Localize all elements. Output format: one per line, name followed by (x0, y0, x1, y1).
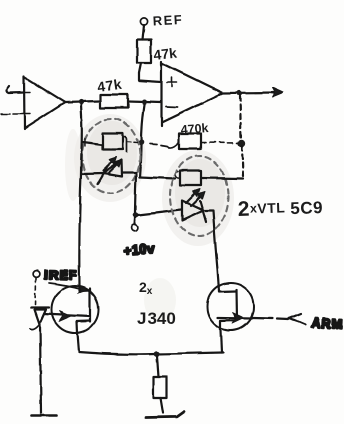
smudge below J340 label (144, 278, 176, 322)
node C junction (output) (237, 90, 242, 95)
photocell P1 box (103, 134, 124, 150)
ground left (31, 414, 56, 417)
label 2x VTL5C9 (237, 195, 323, 221)
LED D3 (vactrol 2) (182, 201, 206, 223)
wire LED D3 cathode right and down to Q2 drain (206, 211, 219, 284)
node D junction (238, 139, 245, 146)
node F junction (+10V) (133, 212, 139, 218)
dashed wire IREF terminal down to diode D1 (35, 278, 38, 305)
IREF terminal (33, 271, 40, 278)
vactrol VTL1 dashed envelope (82, 119, 140, 193)
ARM arrowhead (289, 314, 306, 325)
diode D1 (reference) (30, 308, 50, 330)
wire node B down (feedback bus) (140, 105, 145, 178)
label ARM (311, 315, 344, 332)
vactrol VTL2 dashed envelope (170, 156, 228, 236)
wire D1 to ground (40, 324, 41, 413)
light arrows vactrol 2 (186, 189, 205, 206)
resistor R4 (154, 377, 167, 398)
wire feedback bus elbow to photocell 2 (140, 172, 180, 179)
wire Q2 gate to ARM arrow (253, 318, 288, 320)
wire input stub 1 with hook (7, 86, 24, 93)
resistor R1 47K vertical (137, 40, 151, 63)
svg-text:REF: REF (152, 12, 183, 29)
wire node A to R2 (81, 100, 100, 103)
wire node A down to Q1 drain (79, 105, 81, 288)
wire R2 to op-amp minus input (128, 102, 161, 103)
label REF (152, 12, 183, 29)
photocell P2 box (180, 171, 201, 186)
svg-text:+10v: +10v (123, 241, 156, 258)
wire P1 right lead (123, 137, 138, 152)
LED D2 (vactrol 1) (98, 160, 123, 184)
wire REF to R1 (143, 25, 145, 40)
label IREF (44, 267, 78, 283)
JFET Q1 (44, 286, 99, 333)
label 47K (R1) (153, 45, 178, 63)
resistor R3 470K (179, 134, 201, 150)
wire LED D2 anode right (123, 171, 136, 173)
source rail (79, 352, 223, 354)
JFET Q2 (207, 283, 254, 330)
wire LED1-anode down to +10V node (135, 174, 136, 213)
svg-text:ARM: ARM (311, 315, 344, 332)
wire Q1 source to rail (78, 333, 80, 352)
svg-text:47k: 47k (96, 76, 123, 95)
svg-text:47k: 47k (153, 45, 178, 63)
smudge shading around vactrol 1 (74, 114, 146, 202)
node E junction (on feedback bus) (138, 139, 144, 145)
output arrowhead (272, 88, 283, 98)
wire R1 to op-amp plus input (139, 63, 161, 82)
+10V terminal (131, 218, 138, 231)
wire U1 output to node A (65, 101, 81, 104)
resistor R2 47K (100, 95, 128, 109)
svg-text:J340: J340 (137, 309, 176, 328)
dashed feedback wire output down to node D (240, 96, 241, 140)
wire P1 left lead (83, 139, 103, 146)
svg-text:IREF: IREF (44, 267, 78, 283)
node B junction (minus input) (142, 100, 147, 105)
wire Q2 source to rail (221, 330, 222, 353)
node G junction (rail center) (154, 351, 160, 357)
wire op-amp output (223, 91, 276, 94)
smudge shading around vactrol 2 (162, 150, 234, 246)
wire node F to LED D3 anode (138, 210, 181, 215)
node A junction (78, 99, 83, 104)
label 2x J340 (137, 279, 176, 328)
dashed wire node D down to photocell 2 (242, 146, 243, 177)
wire P2 right lead to node D bus (201, 177, 243, 180)
buffer U1 (24, 77, 65, 130)
wire LED D2 cathode to node A bus (81, 172, 103, 175)
label 470K (R3) (180, 121, 209, 137)
wire R4 to ground (161, 398, 164, 413)
smudge streak left of vactrol 1 (65, 129, 81, 201)
wire R3 left lead (150, 142, 179, 148)
ground bottom (146, 412, 185, 418)
wire rail to R4 (157, 356, 159, 377)
REF terminal (140, 18, 147, 25)
wire R3 right lead dashed to node D (201, 142, 238, 145)
wire input stub 2 (1, 113, 24, 115)
label 47K (R2) (96, 76, 123, 95)
light arrows vactrol 1 (103, 157, 122, 174)
svg-text:470k: 470k (180, 121, 209, 137)
op-amp U2 (162, 62, 224, 127)
label +10V (123, 241, 156, 258)
IREF arrow (49, 284, 87, 294)
